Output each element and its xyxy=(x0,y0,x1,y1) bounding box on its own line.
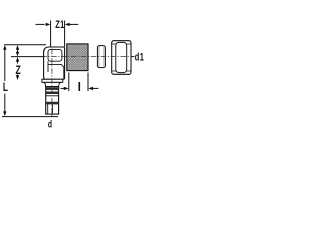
sleeve section verticals xyxy=(47,104,49,114)
O-ring band 2 xyxy=(46,92,59,95)
svg-text:Z: Z xyxy=(15,65,21,78)
flange (insertion stop collar) xyxy=(42,79,63,82)
wire: horizontal centerline (dash-dot axis through horizontal branch) xyxy=(44,56,134,58)
dimension L line xyxy=(3,45,6,116)
dimension l (length of threaded section) xyxy=(61,73,99,92)
threaded union spigot (hatched) xyxy=(67,44,88,71)
union nut U1 xyxy=(112,41,131,75)
dimension Z1 (top horizontal) xyxy=(36,21,79,47)
svg-text:l: l xyxy=(78,80,81,94)
O-ring band 3 xyxy=(46,102,59,105)
node B: extension line axis level (y=56.6) xyxy=(11,56,44,58)
svg-text:d1: d1 xyxy=(135,50,144,63)
svg-text:L: L xyxy=(3,82,8,95)
wire: vertical centerline (dash-dot axis of vertical pipe) xyxy=(51,49,53,117)
press-fit pipe end xyxy=(46,87,59,115)
svg-text:d: d xyxy=(48,118,52,130)
compression ferrule (olive) xyxy=(97,46,105,68)
neck below flange xyxy=(44,82,61,86)
elbow body interior lines (boss outlines) xyxy=(47,61,49,72)
node C: extension line pipe bottom (y=116.6) xyxy=(2,116,58,118)
node A: extension line top face (y=44.8) xyxy=(4,44,46,46)
svg-text:Z1: Z1 xyxy=(55,18,64,31)
elbow body inner bore (rounded square detail) xyxy=(48,49,62,61)
groove line xyxy=(46,95,59,97)
label d1 with leader xyxy=(131,56,135,58)
dimension Z line (upper small span A-B plus Z span B-flange) xyxy=(16,45,19,80)
O-ring band 1 xyxy=(46,87,59,90)
elbow body (outer casing) xyxy=(44,47,65,79)
